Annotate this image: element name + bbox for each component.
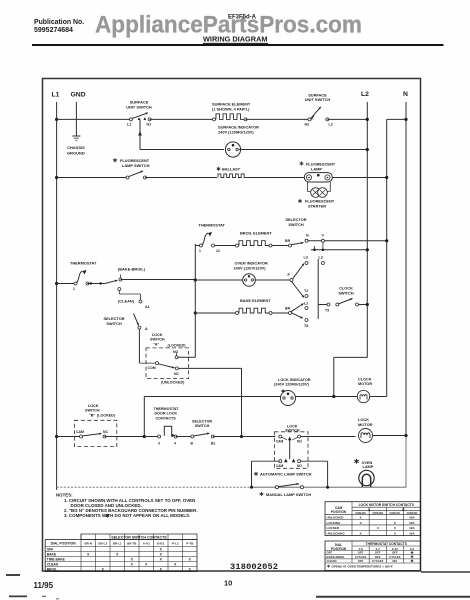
svg-text:X: X	[394, 526, 396, 530]
svg-text:CLEAN: CLEAN	[47, 563, 59, 567]
svg-text:GND: GND	[71, 92, 86, 99]
svg-text:X: X	[160, 553, 163, 557]
svg-text:LOCKED: LOCKED	[327, 526, 341, 530]
svg-text:DOOR LOCK: DOOR LOCK	[155, 412, 178, 416]
svg-text:V: V	[322, 234, 325, 238]
svg-text:L3: L3	[304, 256, 308, 260]
svg-text:LOCK: LOCK	[152, 333, 163, 337]
svg-text:BR: BR	[285, 307, 291, 311]
svg-text:SWITCH: SWITCH	[195, 424, 210, 428]
svg-text:N/A: N/A	[392, 559, 397, 563]
svg-text:BROIL ELEMENT: BROIL ELEMENT	[240, 231, 272, 236]
svg-text:UNLOCKING: UNLOCKING	[327, 531, 346, 535]
svg-text:P-L2: P-L2	[172, 542, 179, 546]
svg-text:AUTOMATIC LAMP SWITCH: AUTOMATIC LAMP SWITCH	[260, 472, 312, 477]
svg-text:GROUND: GROUND	[67, 151, 85, 156]
svg-text:X: X	[174, 563, 177, 567]
svg-text:N/A: N/A	[409, 521, 415, 525]
svg-text:COM: COM	[148, 366, 156, 370]
svg-text:BR-L1: BR-L1	[113, 542, 122, 546]
svg-text:T9: T9	[325, 309, 329, 313]
svg-text:X: X	[394, 521, 396, 525]
svg-text:SWITCH: SWITCH	[106, 321, 122, 326]
svg-text:POSITION: POSITION	[331, 510, 347, 514]
svg-text:CONTACTS: CONTACTS	[156, 416, 177, 420]
svg-text:LOCK MOTOR SWITCH CONTACTS: LOCK MOTOR SWITCH CONTACTS	[359, 503, 415, 507]
svg-text:LAMP SWITCH: LAMP SWITCH	[122, 163, 150, 168]
svg-text:L1: L1	[127, 123, 131, 127]
svg-text:N/A: N/A	[409, 526, 415, 530]
svg-text:3: 3	[158, 442, 160, 446]
svg-text:L2: L2	[361, 91, 369, 98]
svg-text:BK-TB: BK-TB	[127, 542, 137, 546]
svg-text:A1: A1	[145, 305, 150, 309]
svg-text:SWITCH: SWITCH	[338, 291, 354, 296]
svg-text:SELECTOR: SELECTOR	[192, 420, 212, 424]
svg-text:X: X	[394, 531, 396, 535]
svg-text:1: 1	[199, 249, 201, 253]
svg-text:LOCK: LOCK	[88, 404, 99, 408]
svg-text:EF3F5d-A: EF3F5d-A	[228, 15, 257, 21]
svg-text:CLEAN: CLEAN	[327, 559, 337, 563]
svg-text:X: X	[116, 553, 119, 557]
svg-text:L2: L2	[329, 123, 333, 127]
svg-text:11/95: 11/95	[34, 581, 54, 590]
svg-text:N/A: N/A	[409, 515, 415, 519]
svg-text:X: X	[145, 563, 148, 567]
svg-text:(UNLOCKED): (UNLOCKED)	[161, 381, 185, 385]
svg-text:BAKE ELEMENT: BAKE ELEMENT	[240, 298, 271, 303]
svg-text:SWITCH: SWITCH	[285, 429, 300, 433]
svg-text:A: A	[368, 508, 371, 512]
svg-text:THERMOSTAT: THERMOSTAT	[154, 407, 180, 411]
svg-text:LAMP: LAMP	[363, 465, 374, 469]
svg-text:NO: NO	[297, 439, 302, 443]
svg-text:B: B	[191, 442, 194, 446]
svg-text:CAM: CAM	[276, 439, 284, 443]
svg-text:NO: NO	[297, 464, 302, 468]
svg-text:L2: L2	[304, 302, 308, 306]
svg-text:(LOCKED): (LOCKED)	[97, 413, 116, 417]
svg-text:THERMOSTAT: THERMOSTAT	[70, 261, 97, 266]
svg-text:LOCKING: LOCKING	[327, 521, 341, 525]
svg-text:(1 SHOWN, 4 PAR'L): (1 SHOWN, 4 PAR'L)	[212, 107, 250, 112]
svg-text:(LOCKED): (LOCKED)	[168, 344, 187, 348]
svg-text:3. COMPONENTS WITH DO NO: 3. COMPONENTS WITH DO NOT APPEAR ON ALL …	[64, 513, 190, 518]
svg-text:3-4: 3-4	[410, 547, 415, 551]
svg-text:LAMP: LAMP	[311, 166, 322, 171]
svg-text:CAM: CAM	[276, 464, 284, 468]
svg-text:P-TB: P-TB	[186, 542, 194, 546]
svg-text:"A": "A"	[153, 342, 159, 346]
svg-text:MOTOR: MOTOR	[358, 422, 373, 427]
svg-text:T8: T8	[304, 324, 308, 328]
svg-text:CLOCK: CLOCK	[358, 378, 372, 382]
svg-text:BROIL: BROIL	[47, 568, 57, 572]
svg-text:SWITCH: SWITCH	[85, 409, 100, 413]
svg-text:T2: T2	[304, 289, 308, 293]
svg-text:X: X	[360, 515, 362, 519]
svg-text:B: B	[402, 508, 405, 512]
svg-text:OFF: OFF	[358, 559, 364, 563]
svg-text:NOTES:: NOTES:	[56, 493, 73, 498]
svg-text:BALLAST: BALLAST	[222, 167, 241, 172]
svg-text:X: X	[131, 563, 134, 567]
svg-text:X: X	[189, 558, 192, 562]
svg-text:N/A: N/A	[409, 531, 415, 535]
svg-text:TIME BAKE: TIME BAKE	[47, 558, 66, 562]
svg-text:H1: H1	[147, 123, 152, 127]
svg-text:5995274684: 5995274684	[34, 27, 73, 34]
svg-text:A-A1: A-A1	[143, 542, 150, 546]
svg-text:240V (120V/120V): 240V (120V/120V)	[234, 266, 267, 271]
svg-text:SWITCH: SWITCH	[150, 338, 165, 342]
svg-text:BR-L2: BR-L2	[98, 542, 107, 546]
svg-text:BAKE: BAKE	[47, 553, 57, 557]
svg-text:(CLEAN): (CLEAN)	[118, 299, 135, 304]
svg-text:10: 10	[224, 579, 232, 588]
svg-text:L1: L1	[52, 92, 60, 99]
svg-text:240V (120MG/120V): 240V (120MG/120V)	[218, 130, 254, 135]
svg-text:X: X	[160, 558, 163, 562]
svg-text:N: N	[403, 91, 408, 98]
svg-text:SWITCH: SWITCH	[288, 222, 304, 227]
svg-text:UNIT SWITCH: UNIT SWITCH	[126, 105, 152, 110]
svg-text:NC: NC	[103, 430, 109, 434]
svg-text:OPENS AT OVEN TEMPERATURES > 5: OPENS AT OVEN TEMPERATURES > 590°F	[332, 564, 393, 568]
svg-text:CHASSIS: CHASSIS	[67, 145, 85, 150]
svg-text:B1: B1	[211, 442, 215, 446]
svg-text:X: X	[160, 548, 163, 552]
svg-text:A: A	[145, 327, 148, 331]
svg-text:NO: NO	[173, 350, 179, 354]
svg-text:X: X	[360, 531, 362, 535]
svg-text:Publication No.: Publication No.	[34, 19, 84, 26]
svg-text:BR-N: BR-N	[85, 542, 93, 546]
svg-text:P: P	[288, 273, 291, 277]
svg-text:SELECTOR SWITCH CONTACTS: SELECTOR SWITCH CONTACTS	[111, 535, 167, 539]
svg-text:THERMOSTAT: THERMOSTAT	[199, 223, 226, 228]
svg-text:N: N	[306, 234, 309, 238]
svg-text:UNIT SWITCH: UNIT SWITCH	[305, 97, 331, 102]
svg-text:DIAL POSITION: DIAL POSITION	[51, 542, 77, 546]
svg-text:STARTER: STARTER	[308, 203, 326, 208]
svg-text:H2: H2	[305, 123, 310, 127]
svg-text:MOTOR: MOTOR	[358, 382, 372, 386]
svg-text:L3: L3	[319, 256, 323, 260]
svg-text:OFF: OFF	[47, 548, 54, 552]
svg-text:(BAKE-BROIL): (BAKE-BROIL)	[118, 267, 146, 272]
svg-text:X: X	[360, 521, 362, 525]
svg-text:CAM: CAM	[76, 430, 84, 434]
svg-text:THERMOSTAT CONTACTS: THERMOSTAT CONTACTS	[366, 542, 408, 546]
svg-text:BR: BR	[285, 239, 291, 243]
svg-text:"B": "B"	[89, 413, 95, 417]
svg-text:X: X	[131, 558, 134, 562]
svg-text:12: 12	[216, 249, 220, 253]
svg-text:UNLOCKED: UNLOCKED	[327, 515, 345, 519]
svg-text:CYCLES: CYCLES	[372, 559, 383, 563]
svg-text:X: X	[87, 553, 90, 557]
svg-text:NC: NC	[174, 372, 180, 376]
svg-text:1: 1	[73, 287, 75, 291]
svg-text:X: X	[377, 526, 379, 530]
svg-text:MANUAL LAMP SWITCH: MANUAL LAMP SWITCH	[266, 492, 311, 497]
svg-text:4: 4	[174, 442, 176, 446]
svg-text:318002052: 318002052	[230, 562, 278, 572]
svg-text:B-B1: B-B1	[157, 542, 164, 546]
svg-text:WIRING DIAGRAM: WIRING DIAGRAM	[203, 35, 268, 44]
svg-text:(240V 120MG/120V): (240V 120MG/120V)	[274, 382, 310, 386]
